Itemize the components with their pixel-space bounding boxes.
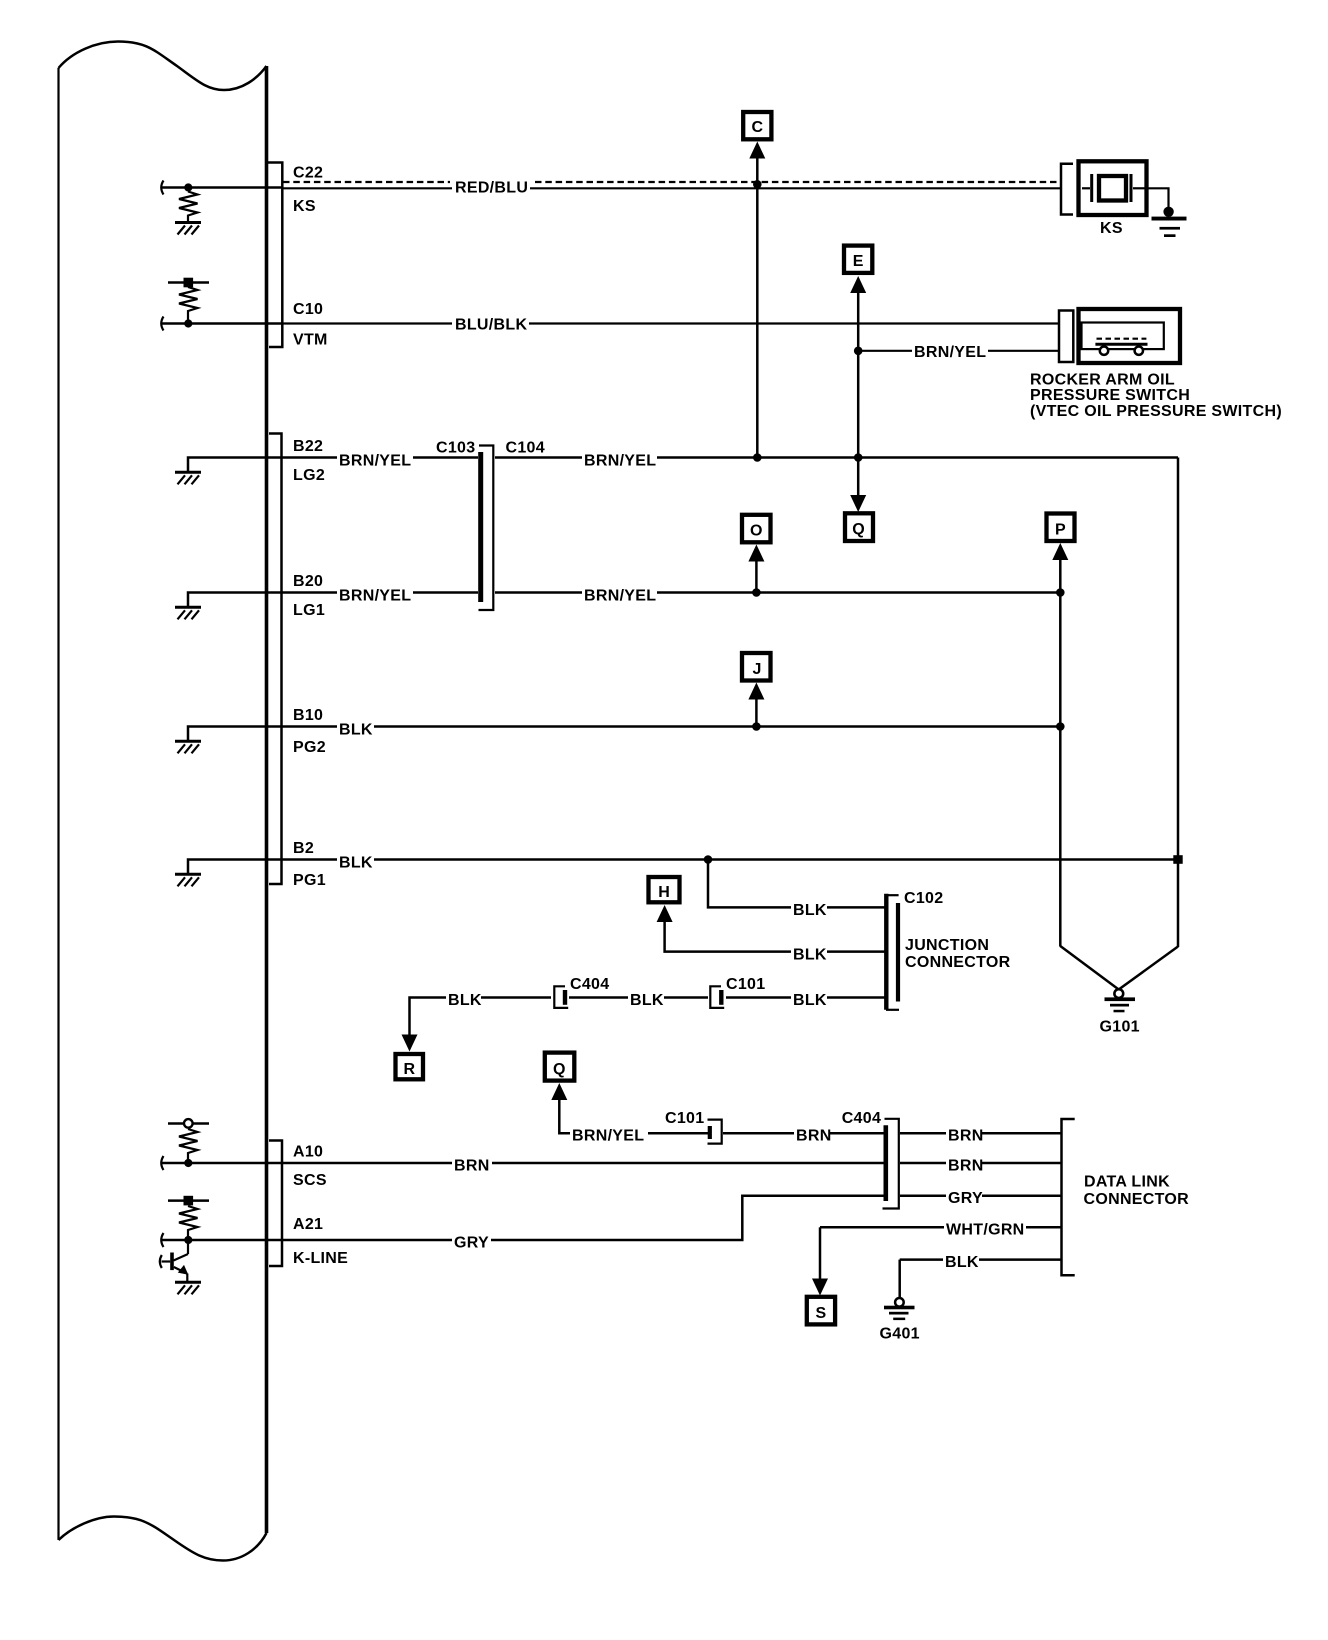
arrow down into S <box>812 1279 828 1296</box>
node: A10 junction dot <box>184 1159 192 1167</box>
wire BLU/BLK (VTM) <box>283 322 1059 324</box>
ground (chassis, K-LINE emitter) <box>175 1282 201 1294</box>
wire from C down to B22 row <box>756 155 759 458</box>
svg-text:J: J <box>753 661 762 678</box>
svg-text:JUNCTION: JUNCTION <box>905 937 989 954</box>
component label DATA LINK CONNECTOR <box>1084 1174 1190 1209</box>
wire BRN/YEL row B20 <box>282 591 1061 594</box>
wire row3 C404 to DLC <box>900 1195 946 1198</box>
svg-text:A10: A10 <box>293 1144 323 1161</box>
svg-text:BLK: BLK <box>339 722 373 739</box>
resistor (VTM pull-up) <box>179 287 198 320</box>
ECM connector bracket (A10/A21) <box>269 1141 282 1267</box>
svg-text:VTM: VTM <box>293 332 328 349</box>
svg-text:S: S <box>816 1305 827 1322</box>
connector box E <box>844 246 872 273</box>
ECM module body torn-edge outline <box>59 42 267 1561</box>
node: dot B22/E branch <box>854 453 863 462</box>
power rail (open circle, SCS pull-up) <box>168 1119 209 1128</box>
ground (chassis, C22 bias) <box>175 223 201 235</box>
svg-text:P: P <box>1055 521 1066 538</box>
connector C103 half (thick bar) <box>478 452 483 602</box>
svg-text:BRN: BRN <box>454 1158 490 1175</box>
power rail (filled square, VTM pull-up) <box>168 278 209 288</box>
node: dot B2 branch to C102 <box>704 855 713 864</box>
svg-text:GRY: GRY <box>454 1235 489 1252</box>
ground (chassis, B10/PG2) <box>175 741 201 753</box>
rocker arm oil pressure switch connector bracket <box>1059 311 1073 363</box>
svg-text:C10: C10 <box>293 301 323 318</box>
wire row1 BRN to C404 <box>830 1132 884 1135</box>
wire row1 to C101 <box>648 1132 708 1135</box>
connector box O <box>742 515 771 543</box>
wire from BLK down to G401 <box>898 1260 901 1299</box>
svg-text:KS: KS <box>293 198 316 215</box>
svg-text:PRESSURE SWITCH: PRESSURE SWITCH <box>1030 387 1190 404</box>
node: dot on RED/BLU at C branch <box>753 180 762 189</box>
knock sensor KS body <box>1079 161 1147 215</box>
svg-text:G101: G101 <box>1100 1019 1140 1036</box>
svg-text:PG1: PG1 <box>293 872 326 889</box>
wire row2 into DLC <box>982 1162 1061 1165</box>
node: dot B10/P riser <box>1056 722 1065 731</box>
svg-text:PG2: PG2 <box>293 739 326 756</box>
svg-text:DATA LINK: DATA LINK <box>1084 1174 1170 1191</box>
svg-text:BLK: BLK <box>793 992 827 1009</box>
wire row3 A21 GRY with step up <box>282 1196 886 1240</box>
node: dot B20/P branch <box>1056 588 1065 597</box>
wire row1 C101 to BRN label <box>723 1132 794 1135</box>
connector box C <box>743 112 771 139</box>
svg-text:SCS: SCS <box>293 1172 327 1189</box>
svg-text:KS: KS <box>1100 220 1123 237</box>
pin B2 wire stub inside ECM <box>188 860 282 874</box>
wire row4 WHT/GRN <box>820 1226 1061 1229</box>
svg-text:BRN: BRN <box>796 1128 832 1145</box>
power rail (filled square, K-LINE pull-up) <box>168 1196 209 1206</box>
svg-text:LG1: LG1 <box>293 602 325 619</box>
arrow down into Q (top) <box>850 495 866 512</box>
wire from KS to ground <box>1147 188 1169 208</box>
arrow up into C <box>749 142 765 159</box>
ground G (KS case earth) <box>1152 207 1187 237</box>
data link connector bracket <box>1062 1119 1075 1275</box>
wire from E down through BRN/YEL and B22 to Q <box>857 289 860 496</box>
node: square junction B2/right riser <box>1173 855 1182 864</box>
pin B20 wire stub inside ECM <box>188 593 282 607</box>
svg-text:BLK: BLK <box>793 902 827 919</box>
wire BLK row3 (R branch) <box>410 998 885 1036</box>
svg-text:C404: C404 <box>570 976 609 993</box>
resistor (SCS pull-up) <box>179 1129 198 1159</box>
wire row2 A10 BRN to C404 <box>282 1162 886 1165</box>
wire from Q arrow down to BRN/YEL row <box>559 1097 570 1134</box>
node: C10 junction dot <box>184 319 192 327</box>
svg-text:(VTEC OIL PRESSURE SWITCH): (VTEC OIL PRESSURE SWITCH) <box>1030 403 1282 420</box>
connector C404 inline (row3) <box>554 986 568 1008</box>
svg-text:C101: C101 <box>726 976 765 993</box>
node: dot B22/C branch <box>753 453 762 462</box>
ground (chassis, B22/LG2) <box>175 472 201 484</box>
svg-text:BLK: BLK <box>339 855 373 872</box>
svg-text:C404: C404 <box>842 1110 881 1127</box>
pin B10 wire stub inside ECM <box>188 727 282 741</box>
arrow up into O <box>748 545 764 562</box>
svg-text:BLU/BLK: BLU/BLK <box>455 317 527 334</box>
arrow up into J <box>748 683 764 700</box>
connector box J <box>742 653 771 681</box>
wire row5 BLK <box>900 1258 1061 1261</box>
svg-text:BRN/YEL: BRN/YEL <box>339 453 411 470</box>
svg-text:C: C <box>752 119 764 136</box>
svg-text:BLK: BLK <box>630 992 664 1009</box>
svg-text:BRN: BRN <box>948 1128 984 1145</box>
svg-text:LG2: LG2 <box>293 467 325 484</box>
svg-text:O: O <box>750 523 763 540</box>
svg-text:Q: Q <box>852 521 865 538</box>
transistor Q (K-LINE driver) <box>160 1240 189 1282</box>
svg-text:C101: C101 <box>665 1110 704 1127</box>
svg-text:BLK: BLK <box>448 992 482 1009</box>
svg-text:CONNECTOR: CONNECTOR <box>1084 1191 1190 1208</box>
ECM connector bracket (B22-B2) <box>269 434 282 885</box>
svg-text:BRN: BRN <box>948 1158 984 1175</box>
component label ROCKER ARM OIL PRESSURE SWITCH <box>1030 372 1282 421</box>
svg-text:CONNECTOR: CONNECTOR <box>905 954 1011 971</box>
rocker arm oil pressure switch body <box>1079 309 1181 363</box>
junction connector C102 <box>886 894 899 1010</box>
connector box S <box>807 1297 835 1325</box>
resistor (KS input bias) <box>179 192 198 222</box>
ECM connector bracket (C22/C10) <box>267 163 282 348</box>
wire BRN/YEL row B22 <box>282 456 1179 459</box>
svg-text:BLK: BLK <box>793 947 827 964</box>
svg-text:H: H <box>658 884 670 901</box>
wire from WHT/GRN down to S <box>819 1227 822 1280</box>
svg-text:BRN/YEL: BRN/YEL <box>584 588 656 605</box>
connector box Q (top) <box>845 513 873 541</box>
arrow down into R <box>402 1035 418 1052</box>
svg-text:R: R <box>404 1061 416 1078</box>
connector C101 inline (row1) <box>708 1120 722 1144</box>
ground funnel wires to G101 <box>1060 946 1178 990</box>
pin B22 wire stub inside ECM <box>188 458 282 472</box>
wire row1 C404 to DLC <box>900 1132 946 1135</box>
arrow up into E <box>850 276 866 293</box>
svg-text:C104: C104 <box>506 440 545 457</box>
svg-text:B20: B20 <box>293 573 323 590</box>
wire BRN/YEL (VTEC switch) <box>858 350 1059 352</box>
svg-text:Q: Q <box>553 1061 566 1078</box>
arrow up into P <box>1052 543 1068 560</box>
svg-text:BRN/YEL: BRN/YEL <box>914 344 986 361</box>
node: dot B10/J branch <box>752 722 761 731</box>
wire row3 into DLC <box>982 1195 1061 1198</box>
svg-text:B10: B10 <box>293 707 323 724</box>
svg-text:C22: C22 <box>293 165 323 182</box>
svg-text:B2: B2 <box>293 840 314 857</box>
connector box H <box>649 877 680 902</box>
svg-text:C102: C102 <box>904 890 943 907</box>
svg-text:BRN/YEL: BRN/YEL <box>572 1128 644 1145</box>
connector box R <box>396 1054 424 1079</box>
wire BLK row2 to C102 <box>827 950 885 953</box>
connector C101 inline (row3) <box>710 986 724 1008</box>
wire row2 C404 to DLC <box>900 1162 946 1165</box>
svg-text:G401: G401 <box>880 1326 920 1343</box>
wire from O arrow to B20 <box>755 558 758 593</box>
knock sensor KS connector bracket <box>1061 164 1073 215</box>
pin C22 wire stub inside ECM <box>161 181 282 195</box>
arrow up into H <box>657 905 673 922</box>
svg-text:BRN/YEL: BRN/YEL <box>339 588 411 605</box>
wire from J arrow to B10 <box>755 696 758 727</box>
wire right riser from B22 to ground funnel <box>1177 458 1180 948</box>
svg-text:RED/BLU: RED/BLU <box>455 180 528 197</box>
pin A21 wire stub inside ECM <box>161 1233 282 1247</box>
node: dot B20/O branch <box>752 588 761 597</box>
node: dot at BRN/YEL branch <box>854 347 863 356</box>
ground (chassis, B20/LG1) <box>175 607 201 619</box>
svg-text:WHT/GRN: WHT/GRN <box>946 1222 1025 1239</box>
wire BLK row B2 <box>282 858 1179 861</box>
wire BLK branch from B2 to C102 row 1 <box>708 860 791 908</box>
svg-text:A21: A21 <box>293 1216 323 1233</box>
resistor (K-LINE pull-up) <box>179 1206 198 1236</box>
connector box P <box>1047 514 1075 542</box>
wire RED/BLU shield (dashed) <box>283 181 1060 183</box>
connector C104 half (bracket) <box>479 446 494 611</box>
pin C10 wire stub inside ECM <box>161 317 282 331</box>
node: C22 junction dot <box>184 183 192 191</box>
svg-text:K-LINE: K-LINE <box>293 1250 348 1267</box>
svg-text:BRN/YEL: BRN/YEL <box>584 453 656 470</box>
connector box Q (bottom) <box>545 1053 575 1081</box>
ground G401 symbol <box>884 1298 915 1320</box>
wire row1 into DLC <box>982 1132 1061 1135</box>
wire BLK row1 to C102 <box>827 906 885 909</box>
svg-text:BLK: BLK <box>945 1254 979 1271</box>
arrow up into Q (bottom) <box>551 1083 567 1100</box>
svg-text:GRY: GRY <box>948 1190 983 1207</box>
wire from H arrow to BLK row 2 <box>665 919 791 952</box>
wire RED/BLU (KS signal) <box>283 187 1060 189</box>
ground G101 symbol <box>1105 989 1136 1012</box>
svg-text:ROCKER ARM OIL: ROCKER ARM OIL <box>1030 372 1175 389</box>
component label JUNCTION CONNECTOR <box>905 937 1011 971</box>
svg-text:E: E <box>853 253 864 270</box>
svg-text:B22: B22 <box>293 438 323 455</box>
ground (chassis, B2/PG1) <box>175 874 201 886</box>
wire from P down to ground funnel <box>1059 557 1062 947</box>
node: A21 junction dot <box>184 1236 192 1244</box>
svg-text:C103: C103 <box>436 440 475 457</box>
wire BLK row B10 <box>282 725 1061 728</box>
connector C404 (DLC rows) <box>883 1119 899 1209</box>
pin A10 wire stub inside ECM <box>161 1156 282 1170</box>
